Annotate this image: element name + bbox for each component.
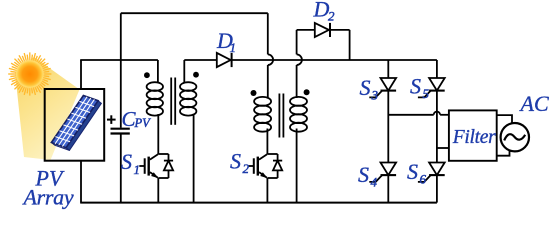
svg-text:Filter: Filter (452, 127, 496, 148)
svg-text:1: 1 (134, 162, 141, 177)
dot T1 primary (144, 72, 150, 78)
PV array box (45, 89, 104, 161)
svg-text:2: 2 (328, 9, 335, 24)
transistor S2 (IGBT with anti-parallel diode) (248, 154, 282, 178)
svg-text:6: 6 (420, 172, 427, 187)
svg-text:S: S (360, 75, 371, 100)
svg-text:S: S (358, 162, 369, 187)
wire S6 cathode to rail corner (436, 175, 438, 203)
wire S3 cathode to S4 anode (387, 91, 389, 163)
wire filter to AC bottom (497, 151, 510, 156)
svg-text:Array: Array (22, 185, 74, 210)
wire bridge left leg top (387, 60, 389, 78)
thyristor S4 (369, 163, 396, 182)
dot T2 primary (251, 90, 257, 96)
svg-text:D: D (313, 0, 330, 22)
svg-text:AC: AC (519, 91, 549, 116)
transformer T2 core (279, 94, 283, 138)
thyristor S5 (418, 78, 445, 97)
svg-text:PV: PV (134, 116, 152, 130)
svg-text:2: 2 (243, 161, 250, 176)
plus polarity mark (107, 115, 116, 124)
wire PV- bottom lead (80, 161, 82, 203)
filter box (449, 110, 497, 160)
wire bridge midpoint A to filter (hop over right leg) (388, 112, 449, 115)
transformer T2 primary winding (254, 97, 271, 154)
svg-text:1: 1 (230, 40, 237, 55)
dot T1 secondary (193, 72, 199, 78)
transformer T1 primary winding (147, 60, 163, 154)
wire capacitor lower lead (120, 135, 122, 203)
wire D1 cathode to bridge (232, 59, 437, 61)
dot T2 secondary (304, 89, 310, 95)
PV solar panel (tilted) (51, 96, 101, 151)
wire bridge right leg top (436, 60, 438, 78)
wire filter to AC top (497, 115, 512, 123)
wire bottom rail (80, 202, 437, 204)
wire D2 anode leg drop to T2 secondary (hop over D1 line) (297, 30, 302, 98)
sun ray beam polygon (15, 57, 80, 160)
wire bridge midpoint B to filter (437, 147, 449, 149)
wire capacitor upper lead (120, 13, 122, 128)
diode D1 (217, 53, 232, 67)
wire top rail (121, 12, 268, 14)
sun (8, 52, 51, 95)
wire T1 secondary to D1 (184, 59, 217, 61)
svg-text:5: 5 (423, 86, 430, 101)
svg-text:S: S (121, 149, 132, 174)
diode D2 bypass loop (297, 23, 350, 60)
transistor S1 (IGBT with anti-parallel diode) (139, 154, 173, 178)
transformer T1 core (171, 78, 175, 125)
AC source (501, 123, 529, 151)
svg-text:S: S (410, 74, 421, 99)
wire S2 emitter to rail (266, 178, 268, 203)
wire S1 emitter to rail (157, 178, 159, 203)
capacitor CPV (111, 129, 130, 134)
svg-text:S: S (407, 159, 418, 184)
wire S4 cathode to rail (387, 175, 389, 203)
transformer T2 secondary winding (290, 97, 307, 203)
thyristor S3 (369, 78, 396, 97)
wire top horizontal PV+ to T1 primary (80, 59, 158, 61)
wire top rail drop to T2 primary (hop over D1 line) (268, 13, 273, 98)
svg-text:3: 3 (371, 88, 379, 103)
transformer T1 secondary winding (180, 60, 196, 203)
svg-text:4: 4 (371, 175, 378, 190)
wire PV+ top lead (80, 60, 82, 90)
wire S5 cathode to S6 anode (436, 91, 438, 163)
svg-text:S: S (230, 149, 241, 174)
thyristor S6 (418, 163, 445, 182)
